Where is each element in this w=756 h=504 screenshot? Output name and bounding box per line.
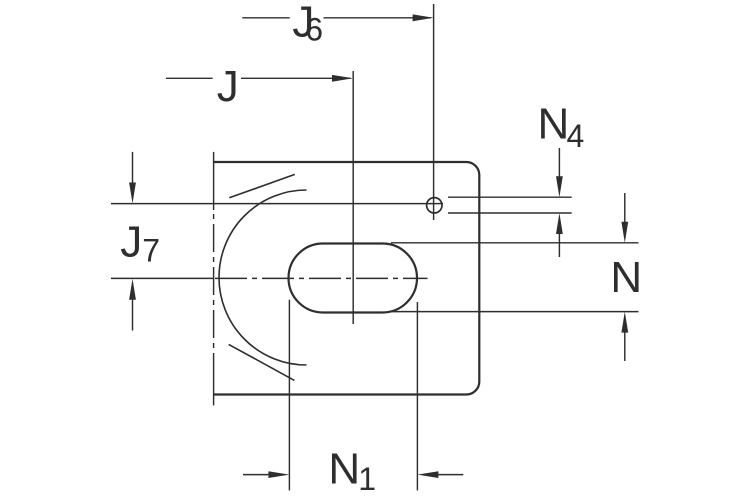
N upper arrowhead (down) bbox=[621, 222, 628, 243]
J6 dimension line with arrow bbox=[324, 17, 432, 19]
svg-text:J: J bbox=[217, 62, 239, 111]
N1 left arrow line bbox=[243, 474, 282, 476]
J7 upper arrowhead (down) bbox=[129, 183, 136, 204]
hole center line horizontal bbox=[111, 203, 443, 205]
N4 tangent line bottom bbox=[448, 212, 572, 214]
top tangent line bbox=[229, 174, 294, 197]
N1 left extension line bbox=[288, 300, 290, 491]
plate outline bbox=[214, 162, 480, 395]
left edge line solid upper bbox=[213, 152, 215, 210]
svg-text:J: J bbox=[120, 218, 142, 267]
N1 right arrowhead (left-pointing) bbox=[417, 471, 438, 478]
left center line dash-dot bbox=[213, 210, 215, 368]
slot (obround hole) bbox=[289, 244, 418, 313]
svg-text:N: N bbox=[538, 100, 570, 149]
N4 lower arrow line bbox=[558, 220, 560, 257]
J7 lower arrowhead (up) bbox=[129, 279, 136, 300]
N upper arrow line bbox=[624, 193, 626, 236]
N4 upper arrowhead (down) bbox=[556, 176, 563, 197]
J7 upper arrow line bbox=[132, 152, 134, 196]
big arc (bore contour) bbox=[219, 190, 307, 365]
svg-text:1: 1 bbox=[358, 461, 376, 497]
J7 lower arrow line bbox=[132, 286, 134, 331]
N1 right extension line bbox=[416, 302, 418, 490]
bottom tangent line bbox=[229, 344, 295, 380]
svg-text:7: 7 bbox=[142, 233, 160, 269]
N1 left arrowhead (right-pointing) bbox=[268, 471, 289, 478]
N4 lower arrowhead (up) bbox=[556, 213, 563, 234]
left edge line solid lower bbox=[213, 368, 215, 405]
svg-text:N: N bbox=[610, 253, 642, 302]
J arrowhead bbox=[332, 75, 353, 82]
J dimension line with arrow bbox=[241, 77, 351, 79]
slot center line dash-dot bbox=[215, 277, 428, 279]
small hole bbox=[427, 198, 442, 213]
N lower arrowhead (up) bbox=[621, 312, 628, 333]
J6 arrowhead bbox=[413, 14, 434, 21]
N4 tangent line top bbox=[448, 196, 572, 198]
N top extension line bbox=[391, 242, 639, 244]
svg-text:N: N bbox=[328, 445, 360, 494]
svg-text:4: 4 bbox=[567, 118, 585, 154]
J extension line vertical bbox=[352, 71, 354, 324]
J dimension line tail bbox=[166, 77, 213, 79]
N4 upper arrow line bbox=[558, 148, 560, 190]
J6 extension line vertical bbox=[433, 4, 435, 220]
N lower arrow line bbox=[624, 318, 626, 361]
N bottom extension line bbox=[391, 311, 639, 313]
J6 dimension line tail bbox=[242, 17, 289, 19]
N1 right arrow line bbox=[425, 474, 463, 476]
slot center line left solid bbox=[111, 277, 214, 279]
svg-text:6: 6 bbox=[305, 12, 323, 48]
